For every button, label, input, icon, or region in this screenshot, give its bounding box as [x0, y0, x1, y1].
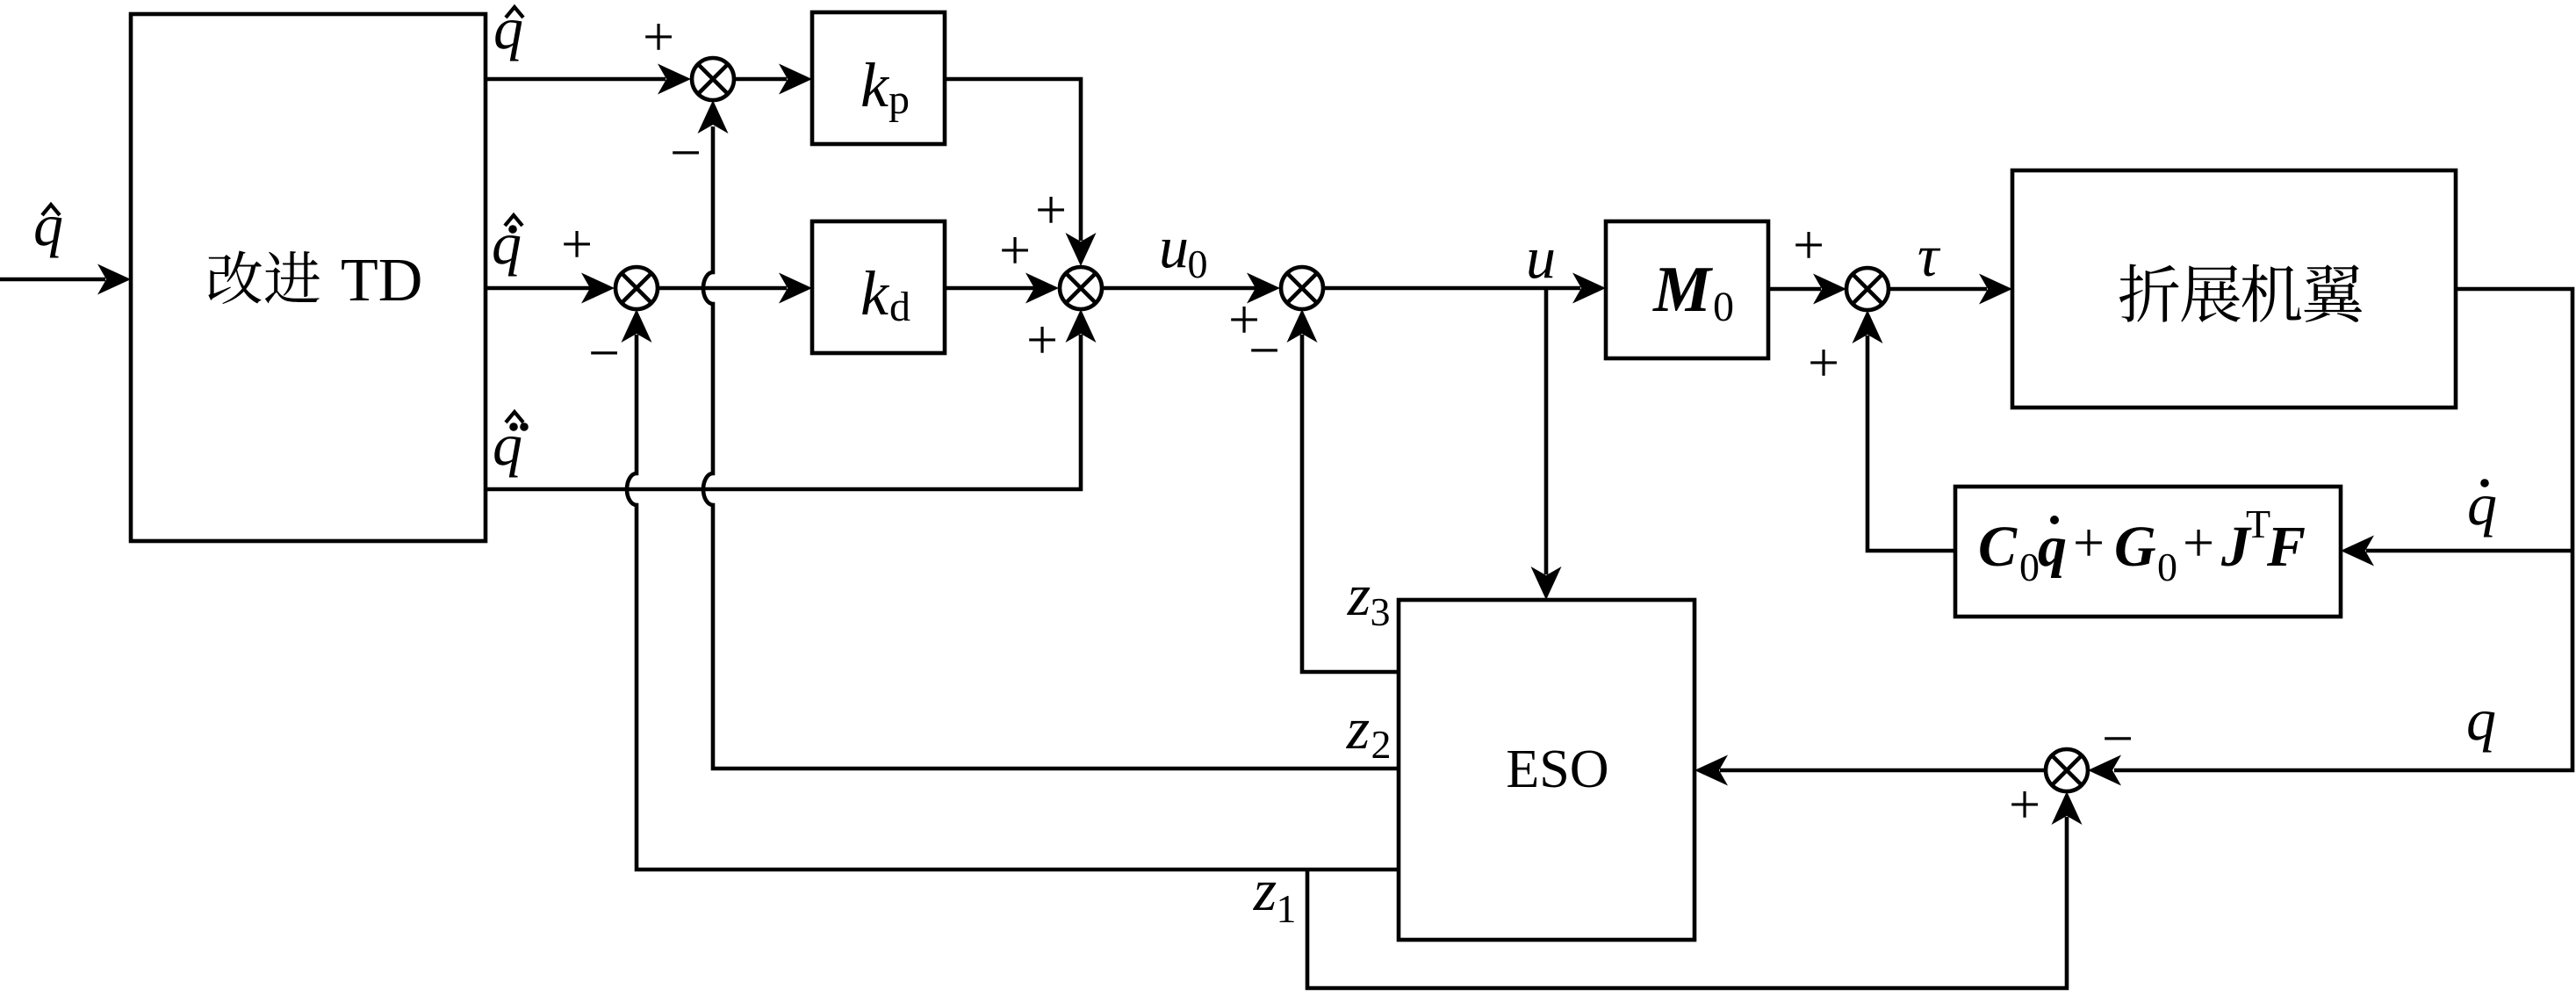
svg-text:q: q [493, 0, 523, 61]
svg-text:+: + [999, 219, 1031, 281]
svg-text:−: − [588, 321, 620, 384]
svg-text:−: − [670, 121, 702, 184]
svg-text:k: k [860, 50, 890, 120]
svg-text:z: z [1347, 561, 1371, 628]
svg-text:+: + [1793, 213, 1824, 276]
svg-text:−: − [2102, 707, 2133, 769]
svg-text:0: 0 [1713, 284, 1734, 330]
svg-text:q: q [2038, 515, 2067, 579]
svg-text:u: u [1526, 224, 1556, 291]
svg-text:0: 0 [1188, 242, 1208, 286]
svg-text:ESO: ESO [1506, 740, 1608, 799]
svg-text:+: + [1026, 308, 1058, 371]
svg-text:z: z [1346, 695, 1370, 761]
svg-text:u: u [1159, 213, 1189, 280]
svg-text:−: − [1248, 319, 1280, 381]
svg-text:+: + [643, 5, 674, 68]
svg-text:q: q [2466, 686, 2496, 753]
svg-text:0: 0 [2019, 545, 2040, 589]
svg-text:C: C [1978, 515, 2018, 579]
svg-text:+: + [2009, 773, 2040, 835]
svg-text:+: + [2073, 511, 2105, 574]
svg-text:k: k [860, 258, 890, 328]
svg-text:0: 0 [2157, 545, 2177, 589]
svg-text:3: 3 [1371, 589, 1391, 634]
svg-text:F: F [2266, 515, 2306, 579]
svg-text:2: 2 [1371, 722, 1392, 767]
svg-text:d: d [889, 284, 910, 330]
svg-text:G: G [2114, 515, 2156, 579]
svg-text:TD: TD [341, 247, 422, 314]
svg-text:+: + [2183, 511, 2214, 574]
svg-text:τ: τ [1918, 222, 1941, 289]
svg-text:+: + [1808, 331, 1839, 393]
svg-text:q: q [33, 191, 63, 258]
svg-text:p: p [889, 76, 910, 123]
svg-text:M: M [1652, 254, 1713, 326]
svg-text:z: z [1253, 856, 1277, 923]
svg-text:1: 1 [1277, 886, 1297, 931]
svg-text:+: + [1035, 178, 1067, 241]
svg-text:+: + [561, 213, 593, 275]
